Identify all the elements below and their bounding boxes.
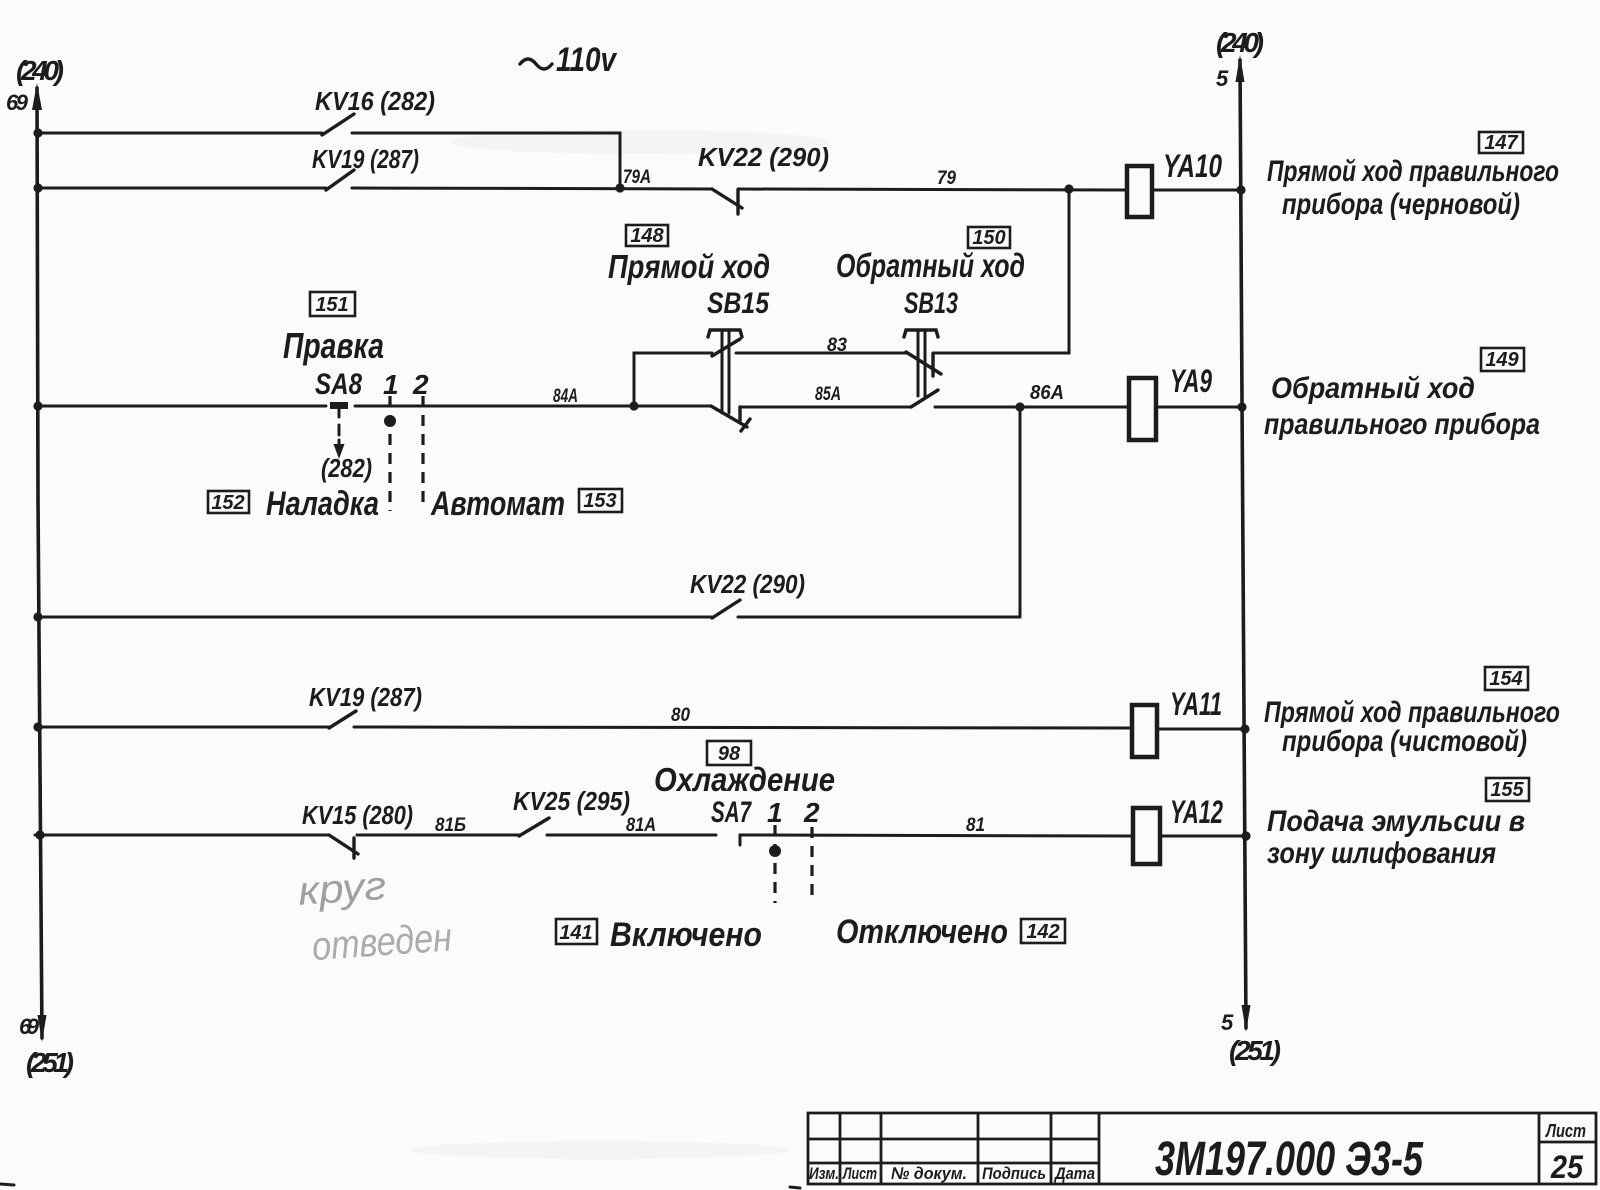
svg-text:3М197.000 Э3-5: 3М197.000 Э3-5 <box>1155 1133 1424 1186</box>
contact KV22 (NC) stub <box>736 190 739 214</box>
wire node 79 segment <box>738 189 1127 190</box>
svg-text:№ докум.: № докум. <box>891 1164 967 1183</box>
contact KV25 (NO) <box>519 818 549 836</box>
svg-text:Прямой ход: Прямой ход <box>608 248 770 285</box>
svg-text:Обратный ход: Обратный ход <box>836 247 1025 284</box>
label box 98 <box>707 741 751 765</box>
wire rung 3 left segment (node 84A) <box>35 405 326 408</box>
svg-text:149: 149 <box>1485 349 1519 371</box>
label box 154 <box>1485 667 1528 690</box>
junction bus 5 / rung 2 <box>1236 185 1245 194</box>
contact KV15 (NC) blade <box>329 835 358 854</box>
svg-text:25: 25 <box>1550 1149 1584 1185</box>
svg-text:(240): (240) <box>1216 27 1264 58</box>
label box 148 <box>626 225 668 246</box>
wire node 86A segment <box>935 406 1129 409</box>
svg-text:5: 5 <box>1221 1010 1234 1035</box>
svg-text:KV25 (295): KV25 (295) <box>513 786 630 816</box>
svg-text:KV22 (290): KV22 (290) <box>690 569 805 599</box>
contact SB15 (NC) end tick <box>741 419 750 431</box>
svg-text:151: 151 <box>315 294 348 316</box>
contact KV22 (NC) blade <box>712 189 742 208</box>
svg-text:1: 1 <box>767 797 783 828</box>
junction node 79 / drop to line 83 <box>1064 184 1073 193</box>
SA7 position 1 dashed line <box>773 825 776 903</box>
svg-text:KV22 (290): KV22 (290) <box>698 142 829 172</box>
arrow up to (240) on bus 69 <box>32 83 42 110</box>
wire line 83 SB15 to SB13 <box>736 352 906 355</box>
svg-text:Автомат: Автомат <box>430 485 565 523</box>
svg-text:84A: 84A <box>553 386 578 407</box>
svg-text:80: 80 <box>671 705 690 726</box>
junction bus 69 / rung 3 <box>33 401 42 410</box>
svg-text:прибора (чистовой): прибора (чистовой) <box>1282 725 1527 758</box>
junction bus 5 / rung 6 <box>1241 831 1250 840</box>
svg-text:85A: 85A <box>815 384 841 405</box>
svg-text:79: 79 <box>937 168 956 189</box>
svg-text:Отключено: Отключено <box>836 913 1008 951</box>
switch SA8 contact bar <box>330 402 348 409</box>
svg-text:81Б: 81Б <box>435 815 466 836</box>
coil YA10 <box>1127 166 1152 217</box>
svg-text:79A: 79A <box>623 167 651 188</box>
svg-text:Охлаждение: Охлаждение <box>654 761 835 798</box>
svg-text:153: 153 <box>583 490 616 512</box>
svg-text:KV19 (287): KV19 (287) <box>309 682 422 712</box>
arrow down to (251) on bus 69 <box>38 1015 47 1042</box>
arrow up to (240) on bus 5 <box>1236 55 1245 82</box>
contact KV19 (NO) <box>326 170 354 190</box>
svg-text:110v: 110v <box>556 41 618 79</box>
svg-text:Лист: Лист <box>842 1164 877 1183</box>
wire branch up from 84A to line 83 <box>634 353 712 406</box>
SA7 position 1 selected dot <box>769 845 781 857</box>
wire rung 3 junction to SB15 lower contact <box>634 405 711 408</box>
contact KV22 (NO) on rung 4 <box>712 600 740 618</box>
svg-text:(282): (282) <box>321 453 372 483</box>
label box 155 <box>1486 778 1529 801</box>
svg-text:зону шлифования: зону шлифования <box>1267 837 1496 870</box>
SA8 position 1 dashed line <box>388 396 391 511</box>
switch SA7 contact tick <box>739 835 742 845</box>
svg-text:(251): (251) <box>26 1047 74 1078</box>
svg-text:Прямой ход правильного: Прямой ход правильного <box>1267 155 1559 188</box>
wire rung 5 left segment <box>35 726 329 729</box>
svg-text:81: 81 <box>966 815 985 836</box>
svg-text:YA11: YA11 <box>1170 686 1222 722</box>
SA8 position 1 selected dot <box>384 415 396 427</box>
contact SB13 (NO) on rung 3 <box>911 390 938 407</box>
wire rung 3 segment SA8 to junction 84A <box>355 405 634 408</box>
svg-text:KV19 (287): KV19 (287) <box>312 144 419 174</box>
junction node 86A <box>1015 402 1024 411</box>
svg-text:YA10: YA10 <box>1163 148 1222 184</box>
wire rung 1 left segment <box>35 132 322 135</box>
svg-text:SA7: SA7 <box>711 796 752 829</box>
svg-text:148: 148 <box>630 225 664 247</box>
svg-text:2: 2 <box>803 797 820 828</box>
svg-text:(251): (251) <box>1229 1035 1281 1066</box>
svg-text:81А: 81А <box>626 815 656 836</box>
junction node 84A branch <box>629 401 638 410</box>
wire drop node 86A to rung 4 <box>1019 407 1022 617</box>
label box 149 <box>1481 348 1524 371</box>
svg-text:150: 150 <box>972 227 1005 249</box>
SA7 position 2 dashed line <box>810 827 813 903</box>
arrow down to (251) on bus 5 <box>1242 1005 1251 1032</box>
svg-text:KV15 (280): KV15 (280) <box>302 800 413 830</box>
svg-text:83: 83 <box>827 335 847 356</box>
bus wire 5 (right vertical supply line) <box>1240 60 1246 1028</box>
label box 141 <box>556 919 597 944</box>
contact SB13 (NC) blade on line 83 <box>906 352 941 374</box>
svg-text:YA12: YA12 <box>1170 794 1223 830</box>
supply label ~110v <box>520 41 618 79</box>
contact KV19 (NO) on rung 5 <box>329 711 356 728</box>
label box 147 <box>1479 132 1523 153</box>
pushbutton SB13 plunger twin lines <box>918 331 925 396</box>
contact SB13 (NC) stub <box>931 354 934 376</box>
wire node 81Б segment <box>357 834 519 837</box>
junction bus 5 / rung 5 <box>1240 724 1249 733</box>
svg-text:Лист: Лист <box>1544 1121 1586 1141</box>
svg-text:69: 69 <box>19 1014 40 1039</box>
wire line 83 SB13 to rung 2 drop <box>933 191 1069 353</box>
label box 153 <box>579 489 622 512</box>
page frame remnant bottom middle <box>790 1187 800 1188</box>
contact KV16 (NO) <box>322 114 354 135</box>
svg-text:Подпись: Подпись <box>982 1164 1046 1183</box>
svg-text:86A: 86A <box>1030 382 1064 404</box>
junction bus 69 / rung 1 <box>33 128 42 137</box>
svg-text:Подача эмульсии в: Подача эмульсии в <box>1267 805 1525 838</box>
wire rung 6 left segment <box>35 834 329 837</box>
pencil note круг отведен <box>297 860 454 970</box>
svg-text:5: 5 <box>1216 66 1229 91</box>
svg-text:Наладка: Наладка <box>266 485 379 523</box>
svg-text:SB13: SB13 <box>904 287 958 320</box>
svg-text:147: 147 <box>1484 132 1518 154</box>
svg-text:SB15: SB15 <box>707 287 770 320</box>
label box 142 <box>1021 919 1065 943</box>
svg-text:Включено: Включено <box>610 916 762 954</box>
svg-text:1: 1 <box>383 369 399 400</box>
junction bus 5 / rung 3 <box>1237 402 1246 411</box>
title block frame <box>808 1113 1596 1184</box>
title block column headers <box>809 1164 1095 1183</box>
svg-text:142: 142 <box>1026 921 1059 943</box>
svg-text:прибора (черновой): прибора (черновой) <box>1282 188 1520 221</box>
coil YA12 <box>1133 808 1160 864</box>
wire rung 2 left segment <box>35 187 326 190</box>
wire rung 4 left segment <box>35 616 712 619</box>
bus wire 69 (left vertical supply line) <box>37 88 42 1038</box>
junction bus 69 / rung 6 <box>35 830 44 839</box>
wire YA9 to bus 5 <box>1156 406 1243 409</box>
svg-text:Обратный ход: Обратный ход <box>1271 372 1475 405</box>
svg-text:Правка: Правка <box>283 325 384 366</box>
contact SB15 (NC) blade on rung 3 <box>711 406 747 427</box>
svg-text:69: 69 <box>6 90 29 115</box>
pushbutton SB13 head <box>904 330 938 337</box>
svg-text:154: 154 <box>1489 668 1522 690</box>
wire node 81A segment <box>547 834 716 837</box>
svg-text:2: 2 <box>412 369 429 400</box>
wire YA12 to bus 5 <box>1160 835 1247 838</box>
label box 152 <box>208 491 249 513</box>
svg-text:155: 155 <box>1490 779 1524 801</box>
sheet cell Лист 25 <box>1544 1121 1586 1185</box>
SA8 position 2 dashed line <box>421 396 424 509</box>
contact SB15 (NC) stub <box>738 407 741 421</box>
svg-text:141: 141 <box>559 922 592 944</box>
coil YA11 <box>1132 705 1157 757</box>
svg-text:152: 152 <box>211 492 244 514</box>
svg-text:(240): (240) <box>16 55 64 86</box>
wire rung 1 right segment with drop to node 79A <box>352 133 620 188</box>
wire node 81 segment <box>740 835 1132 836</box>
wire rung 4 right segment to 86A drop <box>738 616 1020 619</box>
wire node 85A segment <box>740 406 911 409</box>
svg-text:SA8: SA8 <box>315 368 362 401</box>
wire node 79A segment <box>352 188 712 189</box>
page frame remnant bottom left <box>0 1184 14 1185</box>
junction bus 69 / rung 5 <box>33 722 42 731</box>
svg-text:Дата: Дата <box>1053 1164 1095 1183</box>
junction bus 69 / rung 2 <box>33 183 42 192</box>
svg-text:KV16 (282): KV16 (282) <box>315 86 435 116</box>
contact SB15 (NO) on line 83 <box>712 339 740 356</box>
wire node 80 segment <box>354 727 1131 728</box>
wire YA10 to bus 5 <box>1152 189 1241 192</box>
junction bus 69 / rung 4 <box>33 612 42 621</box>
junction node 79A <box>615 183 624 192</box>
label box 151 <box>310 292 355 316</box>
svg-text:круг: круг <box>297 864 388 914</box>
svg-text:Изм.: Изм. <box>809 1164 839 1183</box>
contact KV15 (NC) stub <box>352 838 355 858</box>
svg-text:правильного прибора: правильного прибора <box>1264 408 1540 441</box>
svg-text:YA9: YA9 <box>1170 363 1212 399</box>
coil YA9 <box>1129 378 1156 440</box>
wire YA11 to bus 5 <box>1157 728 1246 731</box>
label box 150 <box>968 227 1010 248</box>
pushbutton SB15 plunger twin lines <box>722 331 729 413</box>
pushbutton SB15 head <box>708 330 742 337</box>
switch SA8 actuator stem (dashed, arrow to 282) <box>334 409 345 459</box>
